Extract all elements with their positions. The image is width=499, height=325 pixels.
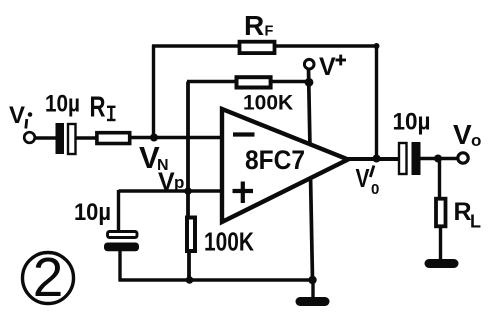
wire RL to ground bbox=[439, 228, 442, 261]
wire bypass capacitor down to bottom rail bbox=[118, 250, 121, 281]
svg-text:F: F bbox=[265, 24, 274, 40]
figure number 2 bbox=[23, 253, 74, 304]
node top-right corner bbox=[374, 43, 380, 49]
wire V+ rail down through op-amp to bottom junction bbox=[309, 69, 313, 280]
capacitor C1 10u input (filled plate) bbox=[56, 123, 65, 154]
svg-text:V: V bbox=[453, 119, 472, 150]
svg-text:o: o bbox=[471, 131, 481, 150]
svg-text:0: 0 bbox=[371, 181, 379, 198]
svg-text:R: R bbox=[454, 198, 472, 226]
svg-text:100K: 100K bbox=[243, 92, 293, 115]
resistor RI bbox=[97, 133, 130, 144]
wire feedback left vertical (VN up) bbox=[152, 45, 155, 138]
resistor R2 100K top bbox=[237, 77, 271, 87]
ground center bbox=[300, 297, 325, 306]
wire input from Vi terminal to capacitor bbox=[34, 136, 57, 139]
wire op-amp output bbox=[348, 157, 400, 161]
svg-text:V: V bbox=[158, 168, 175, 196]
node bottom rail right junction bbox=[308, 276, 316, 284]
wire feedback right vertical down to output bbox=[375, 45, 378, 159]
svg-text:p: p bbox=[174, 173, 184, 192]
svg-text:100K: 100K bbox=[204, 227, 254, 257]
capacitor C2 10u bypass (filled plate) bbox=[104, 243, 139, 252]
svg-text:10µ: 10µ bbox=[393, 109, 431, 136]
wire bottom rail bbox=[119, 278, 314, 281]
capacitor C3 10u output (outline plate) bbox=[399, 143, 407, 174]
node V+ junction bbox=[305, 78, 314, 87]
svg-text:V: V bbox=[9, 102, 25, 129]
resistor R3 100K bottom bbox=[187, 218, 195, 252]
capacitor C2 10u bypass (outline plate) bbox=[108, 232, 138, 238]
svg-text:V: V bbox=[319, 53, 336, 81]
wire capacitor to resistor RI bbox=[74, 136, 97, 139]
capacitor C3 10u output (filled plate) bbox=[412, 142, 421, 175]
svg-text:R: R bbox=[244, 10, 264, 41]
resistor RF bbox=[240, 42, 275, 53]
wire top feedback horizontal bbox=[152, 44, 378, 47]
svg-text:10µ: 10µ bbox=[45, 91, 80, 118]
svg-text:V: V bbox=[356, 163, 371, 193]
node output junction (feedback) bbox=[373, 155, 381, 163]
ground RL bbox=[429, 259, 454, 268]
resistor RL bbox=[436, 199, 446, 227]
op-amp U1 8FC7 bbox=[222, 109, 348, 222]
svg-text:8FC7: 8FC7 bbox=[245, 145, 305, 175]
svg-text:L: L bbox=[470, 212, 481, 232]
wire bottom junction to ground bbox=[311, 280, 314, 298]
svg-text:10µ: 10µ bbox=[74, 199, 111, 226]
label minus input bbox=[233, 132, 255, 136]
capacitor C1 10u input (outline plate) bbox=[68, 124, 76, 154]
node VP bbox=[184, 187, 192, 195]
svg-text:2: 2 bbox=[33, 246, 64, 308]
wire VP down to bypass capacitor bbox=[117, 190, 120, 232]
wire vertical bias rail upper (to VP) bbox=[186, 82, 190, 219]
terminal Vo bbox=[458, 153, 468, 163]
node output to Vo/RL bbox=[434, 155, 442, 163]
node bottom rail left junction bbox=[186, 276, 194, 284]
terminal Vi bbox=[24, 132, 35, 143]
wire output capacitor to Vo terminal bbox=[420, 157, 458, 160]
wire vertical bias rail lower (100K to bottom rail) bbox=[187, 249, 191, 281]
wire output node down to RL bbox=[438, 159, 441, 199]
svg-text:R: R bbox=[90, 92, 106, 124]
wire RI to VN and on to op-amp inverting input bbox=[129, 136, 223, 139]
node VN bbox=[150, 134, 158, 142]
wire VP horizontal to non-inverting input bbox=[119, 189, 224, 192]
terminal V+ bbox=[304, 59, 314, 69]
label plus input bbox=[233, 189, 254, 193]
wire 100K top resistor rail bbox=[187, 80, 309, 83]
